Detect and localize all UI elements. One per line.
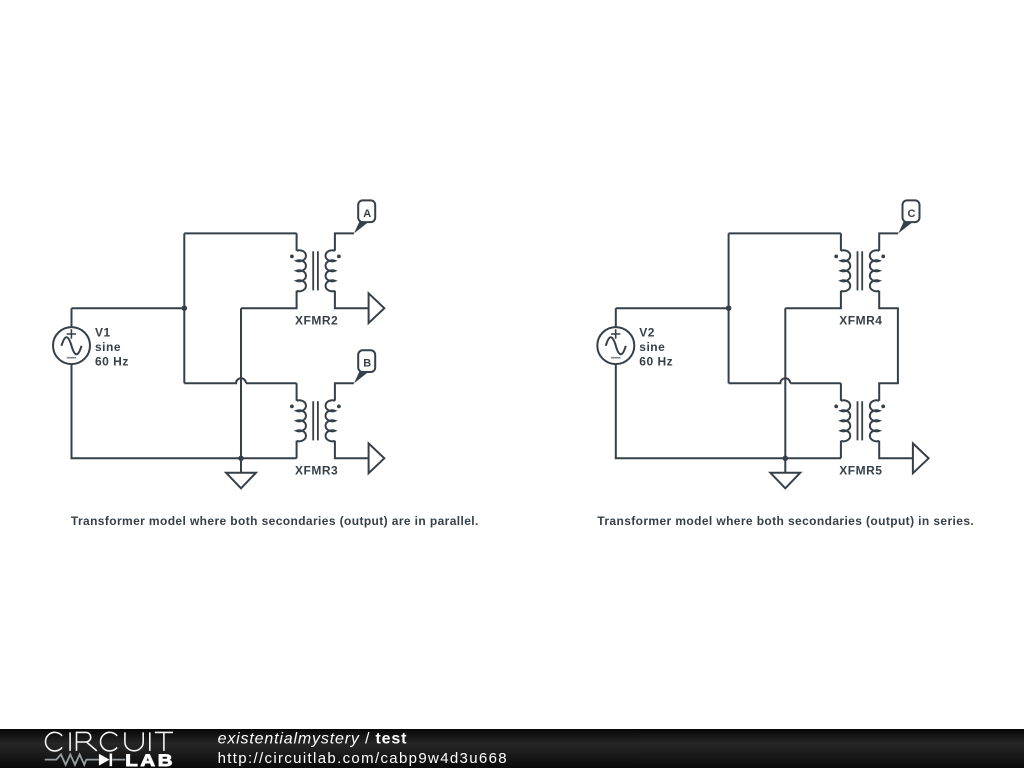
svg-text:60 Hz: 60 Hz (639, 355, 673, 369)
svg-text:V1: V1 (95, 326, 111, 340)
svg-text:http://circuitlab.com/cabp9w4d: http://circuitlab.com/cabp9w4d3u668 (218, 750, 508, 767)
svg-text:XFMR3: XFMR3 (295, 464, 338, 478)
svg-text:A: A (363, 208, 371, 220)
svg-text:Transformer model where both s: Transformer model where both secondaries… (597, 514, 974, 528)
svg-text:sine: sine (639, 340, 665, 354)
svg-text:60 Hz: 60 Hz (95, 355, 129, 369)
svg-text:sine: sine (95, 340, 121, 354)
svg-text:V2: V2 (639, 326, 655, 340)
svg-text:XFMR5: XFMR5 (839, 464, 882, 478)
svg-text:XFMR4: XFMR4 (839, 313, 882, 327)
svg-text:Transformer model where both s: Transformer model where both secondaries… (71, 514, 479, 528)
svg-text:B: B (363, 358, 371, 370)
svg-text:LAB: LAB (125, 751, 175, 768)
svg-text:C: C (908, 208, 916, 220)
svg-text:existentialmystery / test: existentialmystery / test (218, 731, 408, 748)
svg-text:XFMR2: XFMR2 (295, 313, 338, 327)
